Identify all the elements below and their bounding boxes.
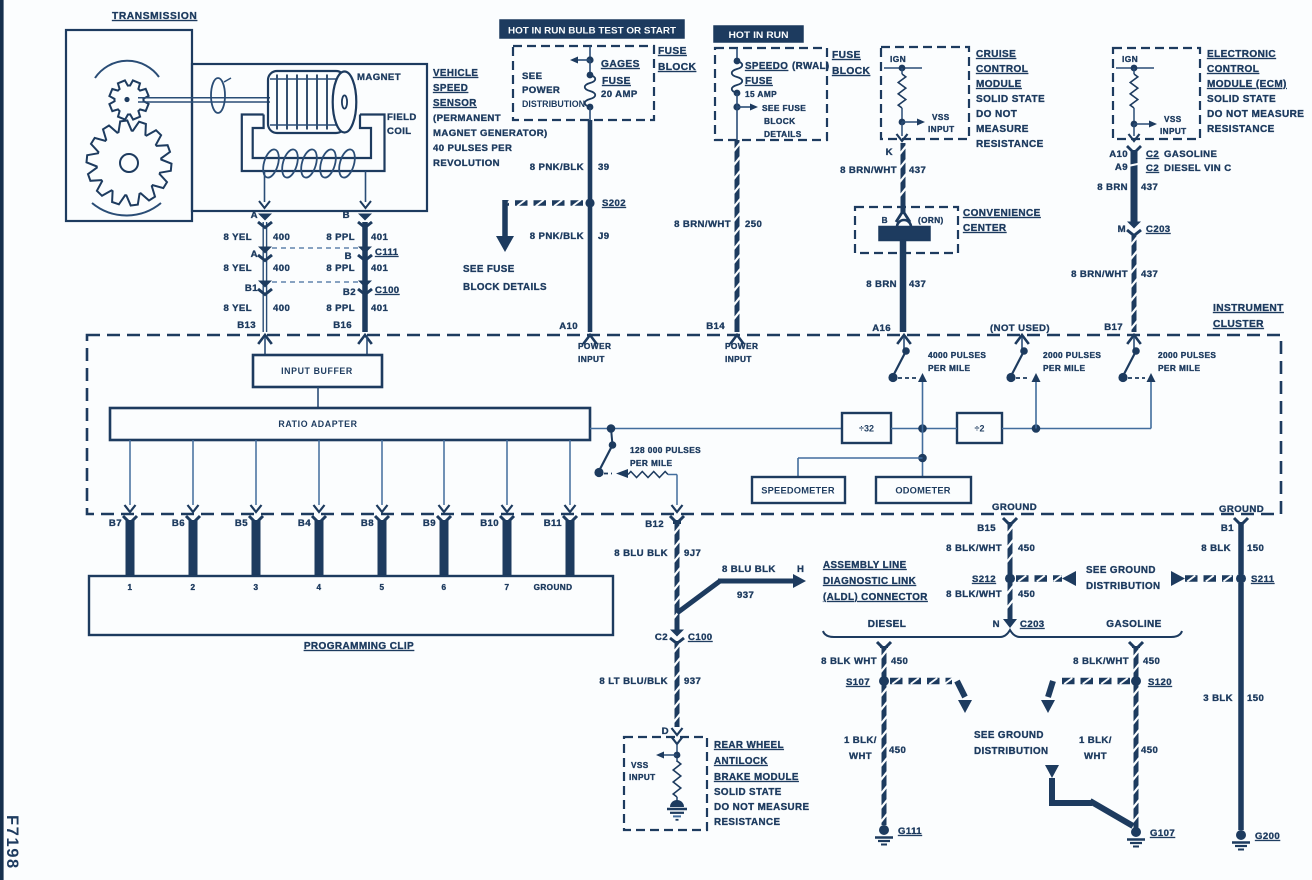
fuse block 2 captions bbox=[745, 61, 830, 139]
svg-text:RESISTANCE: RESISTANCE bbox=[714, 817, 780, 828]
svg-text:VSS: VSS bbox=[1164, 115, 1182, 124]
ALDL caption bbox=[823, 560, 928, 603]
svg-text:FUSE: FUSE bbox=[832, 50, 861, 61]
svg-text:FIELD: FIELD bbox=[387, 112, 417, 123]
svg-text:GROUND: GROUND bbox=[1219, 504, 1264, 515]
svg-text:CONTROL: CONTROL bbox=[1207, 64, 1259, 75]
svg-text:DISTRIBUTION: DISTRIBUTION bbox=[1086, 581, 1160, 592]
svg-text:8 BRN/WHT: 8 BRN/WHT bbox=[840, 165, 897, 176]
svg-text:SEE: SEE bbox=[522, 71, 543, 82]
node B17 entry bbox=[1104, 322, 1141, 344]
svg-text:437: 437 bbox=[1141, 182, 1158, 193]
svg-text:DETAILS: DETAILS bbox=[764, 129, 802, 139]
svg-text:128 000 PULSES: 128 000 PULSES bbox=[630, 445, 701, 455]
svg-text:8 BLU BLK: 8 BLU BLK bbox=[722, 564, 776, 575]
svg-text:G111: G111 bbox=[898, 826, 922, 837]
svg-text:INPUT: INPUT bbox=[629, 773, 656, 782]
svg-text:B9: B9 bbox=[423, 518, 436, 529]
svg-text:CONVENIENCE: CONVENIENCE bbox=[963, 208, 1041, 219]
svg-text:PROGRAMMING CLIP: PROGRAMMING CLIP bbox=[304, 641, 414, 652]
svg-text:401: 401 bbox=[371, 303, 388, 314]
transmission box bbox=[66, 30, 192, 221]
svg-text:C203: C203 bbox=[1146, 224, 1171, 235]
svg-text:8 BLK/WHT: 8 BLK/WHT bbox=[946, 589, 1002, 600]
wire branch to ALDL bbox=[677, 574, 806, 613]
node NOT USED entry bbox=[990, 323, 1050, 349]
wire 8 PPL 401 (circuit B) bbox=[358, 214, 372, 333]
fuse block 1 captions bbox=[522, 59, 640, 110]
selector at A16 bbox=[888, 337, 927, 429]
svg-text:15 AMP: 15 AMP bbox=[745, 89, 777, 99]
svg-text:SENSOR: SENSOR bbox=[433, 98, 477, 109]
svg-text:TRANSMISSION: TRANSMISSION bbox=[112, 11, 197, 22]
rotation arc lower bbox=[92, 203, 161, 215]
node A10 entry bbox=[559, 321, 597, 344]
ALDL branch labels bbox=[722, 564, 804, 601]
convenience center box bbox=[855, 207, 958, 253]
RWAL internal ground bbox=[667, 800, 687, 820]
see ground distribution caption 1 bbox=[1086, 565, 1160, 592]
node B1 label bbox=[1221, 523, 1234, 534]
svg-text:C203: C203 bbox=[1020, 619, 1045, 630]
svg-text:C2: C2 bbox=[655, 632, 668, 643]
svg-text:8 BRN: 8 BRN bbox=[1097, 182, 1128, 193]
svg-text:8 PPL: 8 PPL bbox=[326, 263, 355, 274]
wire 3 BLK 150 bbox=[1238, 583, 1244, 830]
drive gear small bbox=[109, 80, 148, 119]
svg-text:(ORN): (ORN) bbox=[918, 216, 944, 225]
svg-text:VSS: VSS bbox=[631, 761, 649, 770]
cruise pin K exit bbox=[886, 122, 908, 158]
svg-text:B: B bbox=[882, 216, 888, 225]
svg-text:8 BRN: 8 BRN bbox=[866, 279, 897, 290]
fuse block 1 box bbox=[513, 46, 654, 120]
svg-text:450: 450 bbox=[1018, 589, 1035, 600]
svg-text:IGN: IGN bbox=[890, 54, 906, 64]
svg-text:J9: J9 bbox=[598, 231, 609, 242]
svg-text:8 BLK: 8 BLK bbox=[1201, 543, 1231, 554]
svg-text:B: B bbox=[343, 210, 350, 221]
wire B13 to buffer bbox=[264, 337, 266, 355]
svg-text:B1: B1 bbox=[1221, 523, 1234, 534]
link S212 to ground distribution bbox=[1016, 571, 1076, 586]
convenience center caption bbox=[963, 208, 1041, 234]
svg-text:B4: B4 bbox=[298, 518, 311, 529]
wire label B15 upper bbox=[946, 543, 1035, 554]
svg-text:(ALDL) CONNECTOR: (ALDL) CONNECTOR bbox=[823, 592, 928, 603]
svg-text:450: 450 bbox=[1141, 745, 1158, 756]
svg-text:SEE GROUND: SEE GROUND bbox=[1086, 565, 1156, 576]
svg-text:RESISTANCE: RESISTANCE bbox=[976, 139, 1044, 150]
wire sensor lead B bbox=[360, 171, 371, 208]
svg-text:8 PPL: 8 PPL bbox=[326, 303, 355, 314]
svg-text:8 BLK/WHT: 8 BLK/WHT bbox=[946, 543, 1002, 554]
fusible link component bbox=[879, 211, 930, 241]
rotation arc upper bbox=[95, 61, 159, 78]
ECM exit pins A10/A9 bbox=[1109, 124, 1139, 173]
svg-text:HOT IN RUN: HOT IN RUN bbox=[729, 30, 789, 40]
svg-text:INSTRUMENT: INSTRUMENT bbox=[1213, 303, 1284, 314]
svg-text:8 PPL: 8 PPL bbox=[326, 232, 355, 243]
svg-text:250: 250 bbox=[745, 219, 762, 230]
svg-text:437: 437 bbox=[1141, 269, 1158, 280]
connector C100 lower bbox=[655, 630, 713, 644]
svg-text:3: 3 bbox=[254, 583, 259, 592]
svg-text:SPEEDOMETER: SPEEDOMETER bbox=[761, 486, 835, 496]
link S120 to ground distribution bbox=[1041, 678, 1130, 713]
pulse select switch 128000 bbox=[594, 429, 616, 478]
fuse block 2 label bbox=[832, 50, 870, 77]
svg-text:A10: A10 bbox=[559, 321, 578, 332]
wire 1 BLK/WHT 450 (diesel) bbox=[880, 685, 887, 825]
see ground distribution caption 2 bbox=[974, 730, 1048, 757]
splice S212 bbox=[972, 574, 1015, 586]
wire label 437 upper bbox=[840, 165, 926, 176]
svg-text:A: A bbox=[251, 210, 258, 221]
wire label LT BLU/BLK bbox=[599, 676, 701, 687]
svg-text:20 AMP: 20 AMP bbox=[601, 89, 638, 100]
caption GASOLINE bbox=[1106, 619, 1161, 630]
svg-text:÷32: ÷32 bbox=[859, 424, 874, 434]
dashed branch from S202 bbox=[496, 200, 583, 252]
svg-text:POWER: POWER bbox=[725, 341, 758, 351]
svg-text:VEHICLE: VEHICLE bbox=[433, 68, 478, 79]
ECM IGN pin bbox=[1116, 54, 1154, 71]
svg-text:B10: B10 bbox=[480, 518, 499, 529]
RWAL internal resistor bbox=[673, 761, 681, 801]
wire buffer to ratio adapter bbox=[317, 387, 319, 408]
link S211 to ground distribution bbox=[1171, 571, 1233, 586]
svg-text:DIESEL: DIESEL bbox=[868, 619, 907, 630]
programming clip label bbox=[304, 641, 414, 652]
svg-text:A16: A16 bbox=[872, 323, 891, 334]
wire label gasoline upper bbox=[1073, 656, 1160, 667]
feed label HOT IN RUN bbox=[714, 26, 803, 42]
ground caption B15 bbox=[992, 502, 1037, 513]
svg-text:REVOLUTION: REVOLUTION bbox=[433, 158, 500, 169]
svg-text:ASSEMBLY LINE: ASSEMBLY LINE bbox=[823, 560, 907, 571]
svg-text:BRAKE MODULE: BRAKE MODULE bbox=[714, 772, 799, 783]
svg-text:MODULE (ECM): MODULE (ECM) bbox=[1207, 79, 1287, 90]
cruise control module box bbox=[881, 47, 969, 139]
svg-text:SPEED: SPEED bbox=[433, 83, 468, 94]
wire 8 BLK 150 (B1) bbox=[1234, 518, 1248, 574]
wire into fuse 1 bbox=[589, 46, 591, 60]
svg-text:4000 PULSES: 4000 PULSES bbox=[928, 350, 986, 360]
wire sensor lead A bbox=[259, 171, 270, 208]
svg-text:150: 150 bbox=[1247, 543, 1264, 554]
pin stub labels bbox=[109, 518, 562, 529]
splice S107 bbox=[846, 676, 889, 688]
selector at NOT USED bbox=[1006, 347, 1040, 428]
svg-text:437: 437 bbox=[909, 165, 926, 176]
programming clip pin stubs B7-B11 bbox=[123, 516, 577, 576]
input buffer box bbox=[253, 355, 382, 387]
svg-text:9J7: 9J7 bbox=[684, 548, 701, 559]
wire 8 PNK/BLK 39 bbox=[588, 120, 593, 332]
ratio adapter box bbox=[110, 408, 590, 440]
svg-text:8 YEL: 8 YEL bbox=[224, 232, 253, 243]
svg-text:5: 5 bbox=[380, 583, 385, 592]
tap arrow to power distribution bbox=[570, 56, 594, 63]
svg-text:WHT: WHT bbox=[849, 751, 872, 762]
svg-text:B17: B17 bbox=[1104, 322, 1123, 333]
caption 2000 pulses b bbox=[1158, 350, 1216, 373]
svg-text:F7198: F7198 bbox=[3, 815, 21, 870]
svg-text:8 BLK/WHT: 8 BLK/WHT bbox=[1073, 656, 1129, 667]
sensor shaft bbox=[138, 98, 270, 102]
svg-text:BLOCK: BLOCK bbox=[658, 62, 696, 73]
svg-text:2: 2 bbox=[191, 583, 196, 592]
svg-text:VSS: VSS bbox=[932, 113, 950, 122]
svg-text:BLOCK: BLOCK bbox=[832, 66, 870, 77]
svg-text:INPUT: INPUT bbox=[928, 125, 955, 134]
svg-text:CRUISE: CRUISE bbox=[976, 49, 1016, 60]
RWAL caption bbox=[714, 740, 809, 828]
caption 4000 pulses bbox=[928, 350, 986, 373]
svg-text:8 YEL: 8 YEL bbox=[224, 303, 253, 314]
svg-text:DO NOT MEASURE: DO NOT MEASURE bbox=[1207, 109, 1304, 120]
svg-text:DO NOT MEASURE: DO NOT MEASURE bbox=[714, 802, 809, 813]
svg-text:450: 450 bbox=[1143, 656, 1160, 667]
svg-text:POWER: POWER bbox=[578, 341, 611, 351]
svg-text:4: 4 bbox=[317, 583, 322, 592]
cruise internal resistor bbox=[898, 68, 906, 122]
svg-text:(PERMANENT: (PERMANENT bbox=[433, 113, 501, 124]
fuse block 1 label bbox=[658, 46, 696, 73]
vehicle speed sensor caption bbox=[433, 68, 548, 169]
figure number F7198 bbox=[3, 815, 21, 870]
svg-text:S202: S202 bbox=[602, 198, 626, 209]
connector C203 N bbox=[993, 616, 1045, 630]
svg-text:PER MILE: PER MILE bbox=[1158, 363, 1200, 373]
svg-text:HOT IN RUN BULB TEST OR START: HOT IN RUN BULB TEST OR START bbox=[508, 26, 677, 36]
svg-text:B1: B1 bbox=[245, 283, 258, 294]
svg-text:DISTRIBUTION: DISTRIBUTION bbox=[522, 99, 585, 110]
svg-text:6: 6 bbox=[442, 583, 447, 592]
svg-text:450: 450 bbox=[1018, 543, 1035, 554]
caption DIESEL bbox=[868, 619, 907, 630]
svg-text:DIESEL VIN C: DIESEL VIN C bbox=[1164, 163, 1232, 174]
svg-text:450: 450 bbox=[891, 656, 908, 667]
tap arrow see fuse block bbox=[733, 93, 758, 120]
svg-text:POWER: POWER bbox=[522, 85, 560, 96]
instrument cluster box bbox=[87, 335, 1281, 514]
incoming ground distribution link bbox=[1045, 765, 1133, 826]
fuse block 2 box bbox=[715, 48, 827, 140]
svg-text:8 BRN/WHT: 8 BRN/WHT bbox=[1071, 269, 1128, 280]
cruise VSS input tap bbox=[899, 113, 955, 134]
node B14 entry bbox=[706, 321, 744, 344]
svg-text:400: 400 bbox=[273, 263, 290, 274]
connector C111 on A bbox=[258, 247, 272, 261]
connector C100 on B bbox=[358, 281, 372, 295]
wire to speedometer bbox=[798, 458, 923, 477]
svg-text:S107: S107 bbox=[846, 677, 870, 688]
wire B16 to buffer bbox=[366, 337, 368, 355]
splice S120 bbox=[1131, 676, 1172, 688]
node D entry bbox=[662, 726, 683, 744]
svg-text:8 LT BLU/BLK: 8 LT BLU/BLK bbox=[599, 676, 668, 687]
wire label 3 BLK 150 bbox=[1203, 693, 1264, 704]
divide by 2 box bbox=[957, 413, 1002, 443]
svg-text:C100: C100 bbox=[688, 632, 713, 643]
svg-text:DO NOT: DO NOT bbox=[976, 109, 1017, 120]
wire label 8 BRN 437 bbox=[866, 279, 926, 290]
svg-text:B16: B16 bbox=[333, 320, 352, 331]
wire 8 BLK/WHT 450 (gasoline) bbox=[1129, 642, 1143, 677]
svg-text:7: 7 bbox=[505, 583, 510, 592]
splice S211 bbox=[1236, 574, 1275, 586]
svg-text:400: 400 bbox=[273, 232, 290, 243]
svg-text:B12: B12 bbox=[645, 519, 664, 530]
svg-text:1: 1 bbox=[128, 583, 133, 592]
svg-text:437: 437 bbox=[909, 279, 926, 290]
svg-text:SEE GROUND: SEE GROUND bbox=[974, 730, 1044, 741]
svg-text:PER MILE: PER MILE bbox=[928, 363, 970, 373]
svg-text:40 PULSES PER: 40 PULSES PER bbox=[433, 143, 512, 154]
wire labels PNK/BLK bbox=[530, 162, 610, 242]
wire fuse1 to block exit bbox=[589, 107, 591, 120]
svg-text:GASOLINE: GASOLINE bbox=[1106, 619, 1161, 630]
convenience center pin labels bbox=[882, 216, 944, 225]
selector at B17 bbox=[1118, 337, 1155, 429]
wire labels A/B circuits bbox=[224, 210, 400, 331]
svg-text:(NOT USED): (NOT USED) bbox=[990, 323, 1050, 334]
field coil label bbox=[387, 112, 417, 137]
svg-text:8 PNK/BLK: 8 PNK/BLK bbox=[530, 231, 584, 242]
left margin bar bbox=[0, 0, 4, 880]
svg-text:BLOCK DETAILS: BLOCK DETAILS bbox=[463, 282, 547, 293]
fuse GAGES 20 AMP bbox=[585, 60, 596, 110]
svg-text:GROUND: GROUND bbox=[534, 583, 573, 592]
svg-text:3 BLK: 3 BLK bbox=[1203, 693, 1233, 704]
svg-text:S120: S120 bbox=[1148, 677, 1172, 688]
wire label gasoline lower bbox=[1079, 735, 1158, 762]
svg-text:B8: B8 bbox=[361, 518, 374, 529]
svg-text:FUSE: FUSE bbox=[602, 76, 631, 87]
bus from ratio adapter bbox=[590, 424, 842, 433]
svg-text:8 BLK WHT: 8 BLK WHT bbox=[821, 656, 877, 667]
wire 8 BLK/WHT 450 lower (B15) bbox=[1006, 583, 1013, 618]
wire 8 YEL 400 (circuit A) bbox=[258, 214, 272, 333]
wire 8 BRN/WHT 250 bbox=[733, 120, 740, 332]
feed label HOT IN RUN BULB TEST OR START bbox=[500, 20, 684, 38]
bus 2 to right bbox=[1002, 424, 1151, 433]
svg-text:401: 401 bbox=[371, 263, 388, 274]
power input caption 2 bbox=[725, 341, 758, 364]
svg-text:8 BRN/WHT: 8 BRN/WHT bbox=[674, 219, 731, 230]
svg-text:MAGNET: MAGNET bbox=[357, 72, 401, 83]
svg-text:400: 400 bbox=[273, 303, 290, 314]
svg-text:937: 937 bbox=[684, 676, 701, 687]
ground G200 bbox=[1232, 830, 1280, 850]
instrument cluster label bbox=[1213, 303, 1284, 330]
resistor link to B12 bbox=[616, 469, 683, 512]
divide by 32 box bbox=[842, 413, 891, 443]
svg-text:G200: G200 bbox=[1255, 831, 1280, 842]
svg-text:DISTRIBUTION: DISTRIBUTION bbox=[974, 746, 1048, 757]
svg-text:RATIO ADAPTER: RATIO ADAPTER bbox=[278, 419, 357, 429]
driven gear large bbox=[87, 121, 172, 206]
wire 8 BLU BLK 9J7 bbox=[670, 516, 684, 631]
power input caption 1 bbox=[578, 341, 611, 364]
cruise IGN pin bbox=[884, 54, 922, 71]
svg-text:A9: A9 bbox=[1115, 162, 1128, 173]
vehicle speed sensor box bbox=[192, 64, 427, 211]
svg-text:INPUT BUFFER: INPUT BUFFER bbox=[281, 366, 353, 376]
wire 8 BLK/WHT 450 (B15) bbox=[1003, 518, 1017, 574]
svg-text:ELECTRONIC: ELECTRONIC bbox=[1207, 49, 1276, 60]
svg-text:S212: S212 bbox=[972, 574, 996, 585]
svg-text:÷2: ÷2 bbox=[975, 424, 985, 434]
programming clip box bbox=[89, 576, 613, 635]
svg-text:N: N bbox=[993, 619, 1000, 630]
wire 1 BLK/WHT 450 (gasoline) bbox=[1132, 685, 1139, 828]
connector C100 on A bbox=[258, 281, 272, 295]
svg-text:8 YEL: 8 YEL bbox=[224, 263, 253, 274]
svg-text:1 BLK/: 1 BLK/ bbox=[1079, 735, 1112, 746]
svg-text:INPUT: INPUT bbox=[725, 354, 752, 364]
ECM internal resistor bbox=[1130, 68, 1138, 124]
wire 8 BRN 437 bbox=[900, 240, 907, 332]
node B15 label bbox=[977, 523, 996, 534]
svg-text:H: H bbox=[797, 564, 804, 575]
svg-text:GAGES: GAGES bbox=[601, 59, 640, 70]
svg-text:SOLID STATE: SOLID STATE bbox=[714, 787, 782, 798]
svg-text:39: 39 bbox=[598, 162, 609, 173]
svg-text:CENTER: CENTER bbox=[963, 223, 1007, 234]
svg-text:SOLID STATE: SOLID STATE bbox=[976, 94, 1045, 105]
svg-text:B6: B6 bbox=[172, 518, 185, 529]
svg-text:CLUSTER: CLUSTER bbox=[1213, 319, 1264, 330]
wire to odometer bbox=[918, 429, 927, 478]
svg-text:C100: C100 bbox=[375, 285, 400, 296]
svg-text:B2: B2 bbox=[343, 287, 356, 298]
svg-text:2000 PULSES: 2000 PULSES bbox=[1158, 350, 1216, 360]
svg-text:BLOCK: BLOCK bbox=[764, 116, 796, 126]
cruise module caption bbox=[976, 49, 1045, 150]
see fuse block details caption bbox=[463, 264, 547, 293]
field coil winding bbox=[260, 148, 357, 180]
svg-text:PER MILE: PER MILE bbox=[1043, 363, 1085, 373]
svg-text:401: 401 bbox=[371, 232, 388, 243]
svg-text:D: D bbox=[662, 726, 669, 737]
svg-text:PER MILE: PER MILE bbox=[630, 458, 672, 468]
wire 8 BRN 437 (ECM) bbox=[1127, 146, 1141, 223]
ground G107 bbox=[1127, 827, 1175, 847]
svg-text:8 PNK/BLK: 8 PNK/BLK bbox=[530, 162, 584, 173]
node B13 entry bbox=[258, 335, 272, 344]
svg-text:C2: C2 bbox=[1146, 149, 1159, 160]
svg-text:DIAGNOSTIC LINK: DIAGNOSTIC LINK bbox=[823, 576, 916, 587]
svg-text:A10: A10 bbox=[1109, 149, 1128, 160]
odometer box bbox=[876, 477, 971, 503]
caption 128000 pulses bbox=[630, 445, 701, 468]
svg-text:SEE FUSE: SEE FUSE bbox=[463, 264, 515, 275]
svg-text:C111: C111 bbox=[375, 247, 399, 258]
transmission label bbox=[112, 11, 197, 22]
wire label B15 lower bbox=[946, 589, 1035, 600]
ECM VSS input tap bbox=[1131, 115, 1187, 136]
svg-text:GASOLINE: GASOLINE bbox=[1164, 149, 1218, 160]
svg-text:150: 150 bbox=[1247, 693, 1264, 704]
wire label diesel lower bbox=[844, 735, 906, 762]
ECM box bbox=[1113, 48, 1200, 139]
speedometer box bbox=[752, 477, 845, 503]
wire 8 BRN/WHT 437 (ECM) bbox=[1130, 234, 1137, 332]
ECM connector caption bbox=[1146, 149, 1232, 174]
